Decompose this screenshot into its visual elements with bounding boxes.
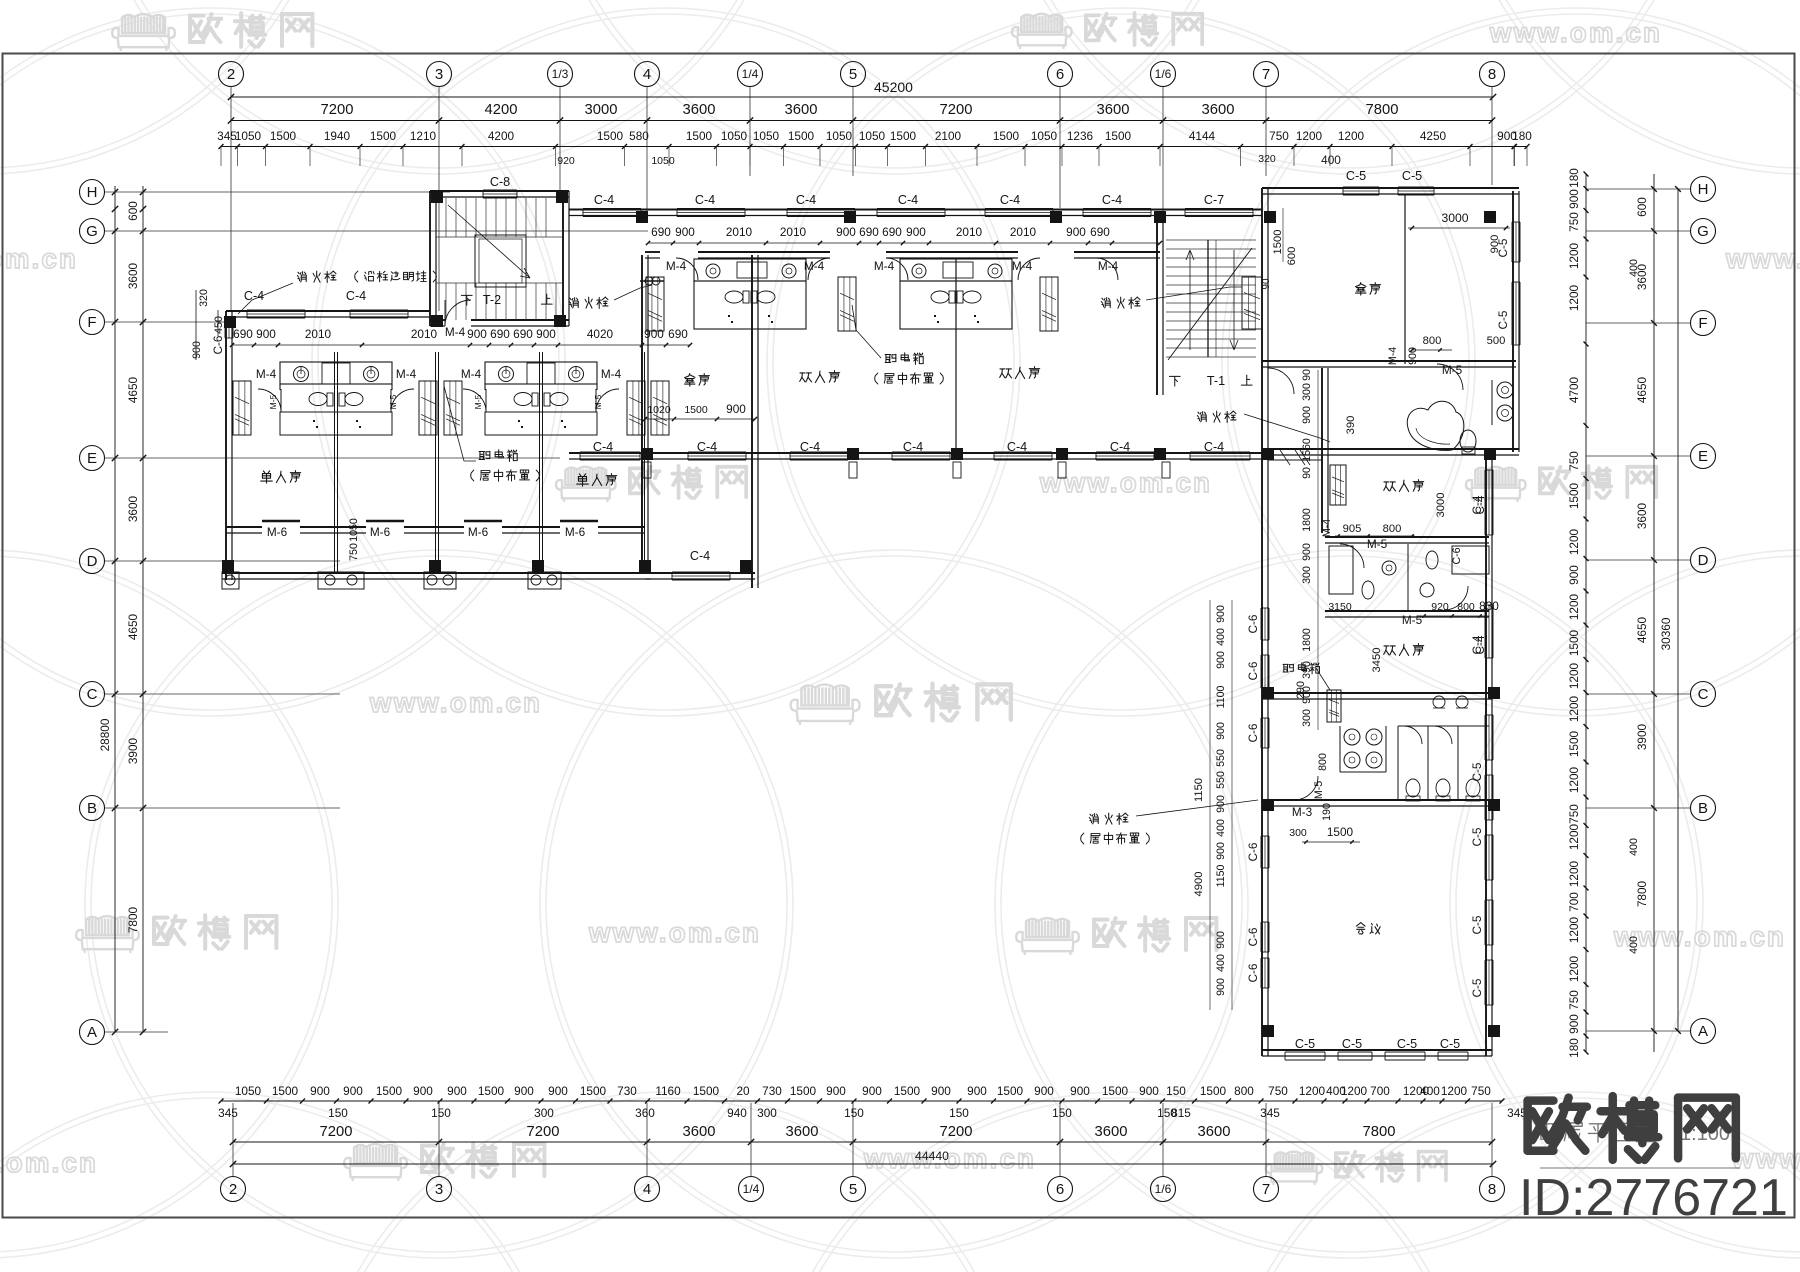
svg-text:C-4: C-4 — [1470, 495, 1484, 514]
svg-text:4200: 4200 — [485, 102, 518, 118]
svg-text:M-4: M-4 — [445, 325, 466, 339]
svg-text:1940: 1940 — [324, 129, 351, 143]
svg-text:390: 390 — [1345, 416, 1357, 435]
svg-text:1500: 1500 — [370, 129, 397, 143]
svg-text:900: 900 — [836, 225, 856, 239]
corridor top wall with windows — [569, 209, 1262, 211]
svg-text:1500: 1500 — [597, 129, 624, 143]
top block interior divider — [1404, 194, 1406, 364]
svg-text:1500: 1500 — [684, 404, 708, 416]
top block top windows C-5 — [1343, 186, 1379, 188]
svg-text:900: 900 — [514, 1084, 534, 1098]
3000 dim in right room — [1408, 227, 1510, 229]
svg-text:C-4: C-4 — [1102, 193, 1122, 207]
svg-text:M-5: M-5 — [473, 394, 483, 409]
bottom fine dims — [221, 1100, 1502, 1102]
column Z29 — [1488, 1025, 1500, 1037]
T-2 labels — [461, 295, 472, 305]
svg-text:7800: 7800 — [1363, 1124, 1396, 1140]
svg-text:900: 900 — [1407, 347, 1419, 365]
svg-text:900: 900 — [1567, 565, 1581, 585]
svg-text:M-4: M-4 — [874, 259, 895, 273]
svg-text:3600: 3600 — [1635, 502, 1649, 529]
svg-text:7: 7 — [1262, 66, 1270, 83]
svg-text:690: 690 — [882, 225, 902, 239]
svg-text:4200: 4200 — [488, 129, 515, 143]
svg-text:C-4: C-4 — [1110, 440, 1130, 454]
svg-text:400: 400 — [1420, 1084, 1440, 1098]
svg-text:3000: 3000 — [1435, 493, 1447, 518]
svg-text:C-4: C-4 — [594, 193, 614, 207]
svg-text:815: 815 — [1171, 1106, 1191, 1120]
svg-text:900: 900 — [1215, 651, 1227, 669]
column Z21 — [532, 560, 544, 572]
svg-text:www.om.cn: www.om.cn — [369, 687, 542, 718]
svg-text:1050: 1050 — [235, 129, 262, 143]
svg-text:1500: 1500 — [1272, 230, 1284, 255]
svg-text:900: 900 — [536, 327, 556, 341]
svg-text:500: 500 — [1487, 335, 1506, 347]
svg-text:3600: 3600 — [683, 102, 716, 118]
svg-text:C-5: C-5 — [1470, 762, 1484, 781]
svg-text:4144: 4144 — [1189, 129, 1216, 143]
svg-text:1200: 1200 — [1341, 1084, 1368, 1098]
bottom total dim 44440 — [233, 1163, 1493, 1165]
svg-text:360: 360 — [635, 1106, 655, 1120]
dims 3150 920 800 830 — [1325, 617, 1489, 619]
double room 1 right wing — [1384, 480, 1424, 492]
svg-text:4650: 4650 — [126, 376, 140, 403]
svg-text:1200: 1200 — [1567, 860, 1581, 887]
svg-text:900: 900 — [1567, 189, 1581, 209]
porch boxes — [222, 572, 239, 589]
svg-text:400: 400 — [1215, 628, 1227, 646]
svg-text:750: 750 — [1567, 804, 1581, 824]
svg-text:M-6: M-6 — [565, 525, 586, 539]
column Z27 — [1488, 799, 1500, 811]
svg-text:4: 4 — [643, 66, 651, 83]
svg-text:1500: 1500 — [890, 129, 917, 143]
svg-text:1500: 1500 — [997, 1084, 1024, 1098]
M-3 door — [1262, 799, 1492, 801]
svg-text:C-8: C-8 — [490, 175, 510, 189]
svg-text:1050: 1050 — [235, 1084, 262, 1098]
svg-text:1200: 1200 — [1567, 528, 1581, 555]
svg-text:3600: 3600 — [126, 262, 140, 289]
watermark row1 — [112, 14, 175, 50]
top mid dims — [231, 120, 1493, 122]
svg-text:1160: 1160 — [655, 1084, 681, 1098]
grid bubble H left — [80, 180, 105, 205]
grid bubble 7 top — [1254, 62, 1279, 87]
distribution box right wing — [1283, 663, 1319, 674]
bottom mid dims — [233, 1141, 1493, 1143]
svg-text:ID:2776721: ID:2776721 — [1519, 1169, 1788, 1227]
svg-text:3: 3 — [435, 1181, 443, 1198]
svg-text:4650: 4650 — [1635, 616, 1649, 643]
svg-text:4250: 4250 — [1420, 129, 1447, 143]
svg-text:750: 750 — [1471, 1084, 1491, 1098]
svg-text:900: 900 — [1301, 406, 1313, 424]
column Z15 — [1056, 448, 1068, 460]
svg-text:M-4: M-4 — [1321, 519, 1333, 537]
svg-text:750: 750 — [1567, 990, 1581, 1010]
svg-text:M-5: M-5 — [1367, 537, 1388, 551]
svg-text:3000: 3000 — [1441, 211, 1468, 225]
svg-text:3600: 3600 — [1198, 1124, 1231, 1140]
svg-text:1500: 1500 — [993, 129, 1020, 143]
svg-text:750: 750 — [1567, 212, 1581, 232]
middle door arcs — [676, 258, 698, 280]
svg-text:940: 940 — [727, 1106, 747, 1120]
svg-text:1500: 1500 — [788, 129, 815, 143]
svg-text:2010: 2010 — [411, 327, 438, 341]
svg-text:1050: 1050 — [651, 155, 675, 167]
svg-text:7200: 7200 — [320, 1124, 353, 1140]
svg-text:900: 900 — [1034, 1084, 1054, 1098]
svg-text:4020: 4020 — [587, 327, 614, 341]
svg-text:1020: 1020 — [647, 404, 671, 416]
top block M-4 door left — [1268, 368, 1294, 394]
grid bubble C right — [1691, 682, 1716, 707]
svg-text:H: H — [87, 184, 98, 201]
column Z1 — [431, 191, 443, 203]
svg-text:B: B — [1698, 800, 1708, 817]
svg-text:90: 90 — [1301, 369, 1313, 381]
svg-text:1500: 1500 — [1327, 825, 1354, 839]
svg-text:6: 6 — [1056, 66, 1064, 83]
column Z8 — [1484, 211, 1496, 223]
svg-text:1500: 1500 — [894, 1084, 921, 1098]
svg-text:C-5: C-5 — [1470, 978, 1484, 997]
svg-text:320: 320 — [198, 289, 210, 307]
svg-text:3600: 3600 — [1202, 102, 1235, 118]
svg-text:C-6: C-6 — [1246, 661, 1260, 680]
svg-text:www.om.cn: www.om.cn — [0, 243, 78, 274]
svg-text:7200: 7200 — [527, 1124, 560, 1140]
hydrant label mid-left — [569, 297, 608, 308]
svg-text:M-5: M-5 — [593, 394, 603, 409]
svg-text:4650: 4650 — [1635, 376, 1649, 403]
svg-text:C-5: C-5 — [1346, 169, 1366, 183]
column Z18 — [1484, 448, 1496, 460]
suite room label left — [685, 374, 710, 386]
grid bubble C left — [80, 682, 105, 707]
svg-text:1236: 1236 — [1067, 129, 1094, 143]
top block right wall windows C-5 — [1511, 222, 1513, 262]
svg-text:3600: 3600 — [785, 102, 818, 118]
grid bubble B left — [80, 796, 105, 821]
svg-text:1500: 1500 — [1567, 730, 1581, 757]
svg-text:A: A — [87, 1024, 97, 1041]
svg-text:600: 600 — [1635, 197, 1649, 217]
svg-text:1/6: 1/6 — [1155, 67, 1172, 81]
svg-text:M-5: M-5 — [1402, 613, 1423, 627]
grid bubble 4 bottom — [635, 1177, 660, 1202]
svg-text:900: 900 — [548, 1084, 568, 1098]
svg-text:690: 690 — [1090, 225, 1110, 239]
svg-text:www.om.cn: www.om.cn — [1725, 243, 1800, 274]
svg-text:1500: 1500 — [686, 129, 713, 143]
top grid verticals — [230, 87, 232, 311]
svg-text:690: 690 — [490, 327, 510, 341]
svg-text:1200: 1200 — [1567, 955, 1581, 982]
svg-text:C-6: C-6 — [211, 335, 225, 354]
column Z2 — [556, 191, 568, 203]
column Z26 — [1262, 799, 1274, 811]
column Z4 — [844, 211, 856, 223]
svg-text:690: 690 — [668, 327, 688, 341]
column Z14 — [951, 448, 963, 460]
grid bubble 1/6 top — [1151, 62, 1176, 87]
svg-text:1150: 1150 — [1193, 778, 1205, 802]
svg-text:900: 900 — [1489, 235, 1501, 254]
svg-text:3150: 3150 — [1328, 601, 1352, 613]
hydrant label right wing — [1197, 411, 1236, 422]
svg-text:1/6: 1/6 — [1155, 1182, 1172, 1196]
svg-text:600: 600 — [1286, 247, 1298, 266]
right wall windows lower — [1484, 470, 1486, 535]
svg-text:700: 700 — [1567, 892, 1581, 912]
svg-text:900: 900 — [1567, 1014, 1581, 1034]
wall stubs below row E — [643, 462, 651, 478]
grid bubble A right — [1691, 1019, 1716, 1044]
grid bubble A left — [80, 1020, 105, 1045]
svg-text:B: B — [87, 800, 97, 817]
svg-text:2010: 2010 — [305, 327, 332, 341]
svg-text:M-6: M-6 — [468, 525, 489, 539]
svg-text:3450: 3450 — [1371, 648, 1383, 673]
svg-text:2010: 2010 — [726, 225, 753, 239]
column Z25 — [1488, 687, 1500, 699]
T-2 door at bottom — [445, 300, 471, 326]
svg-text:900: 900 — [1301, 543, 1313, 561]
svg-text:900: 900 — [447, 1084, 467, 1098]
T-2 treads — [445, 198, 447, 237]
svg-text:F: F — [87, 314, 96, 331]
svg-text:300: 300 — [757, 1106, 777, 1120]
svg-text:M-4: M-4 — [804, 259, 825, 273]
svg-text:900: 900 — [1215, 842, 1227, 860]
middle wardrobes — [646, 277, 664, 331]
svg-text:C-4: C-4 — [800, 440, 820, 454]
big logo OMW — [1528, 1096, 1736, 1160]
svg-text:900: 900 — [343, 1084, 363, 1098]
left wing walkway outer wall — [222, 572, 651, 574]
svg-text:1500: 1500 — [580, 1084, 607, 1098]
bathroom row room1 — [1325, 536, 1489, 538]
T-2 elevator — [475, 235, 526, 287]
svg-text:2100: 2100 — [935, 129, 962, 143]
svg-text:150: 150 — [1052, 1106, 1072, 1120]
svg-text:C-4: C-4 — [697, 440, 717, 454]
svg-text:1200: 1200 — [1441, 1084, 1468, 1098]
svg-text:1050: 1050 — [826, 129, 853, 143]
svg-text:1/4: 1/4 — [742, 67, 759, 81]
svg-text:4900: 4900 — [1193, 872, 1205, 897]
toilets block — [1344, 729, 1360, 745]
svg-text:180: 180 — [1512, 129, 1532, 143]
svg-text:C-5: C-5 — [1470, 827, 1484, 846]
svg-text:300: 300 — [1301, 383, 1313, 401]
left wing interior dim row — [232, 344, 690, 346]
svg-text:900: 900 — [256, 327, 276, 341]
svg-text:1200: 1200 — [1567, 766, 1581, 793]
svg-text:600: 600 — [126, 201, 140, 221]
meeting room — [1356, 923, 1380, 934]
svg-text:1200: 1200 — [1299, 1084, 1326, 1098]
grid bubble 6 top — [1048, 62, 1073, 87]
svg-text:H: H — [1698, 181, 1709, 198]
svg-text:905: 905 — [1343, 523, 1362, 535]
suite bottom wall + window C-4 — [645, 572, 755, 574]
svg-text:C-5: C-5 — [1470, 915, 1484, 934]
svg-text:1/4: 1/4 — [743, 1182, 760, 1196]
svg-text:750: 750 — [1567, 451, 1581, 471]
svg-text:400: 400 — [1321, 153, 1341, 167]
column Z6 — [1154, 211, 1166, 223]
grid bubble E left — [80, 446, 105, 471]
left wing bathroom pair A — [280, 362, 392, 384]
svg-text:C-4: C-4 — [796, 193, 816, 207]
svg-text:20: 20 — [736, 1084, 750, 1098]
hydrant cabinet right of corridor — [1242, 277, 1262, 329]
svg-text:750: 750 — [348, 543, 360, 561]
svg-text:3900: 3900 — [126, 737, 140, 764]
svg-text:M-5: M-5 — [1313, 781, 1325, 799]
svg-text:7200: 7200 — [940, 1124, 973, 1140]
grid bubble 7 bottom — [1254, 1177, 1279, 1202]
top block door M-5 and dims — [1437, 364, 1463, 390]
svg-text:C-6: C-6 — [1246, 842, 1260, 861]
svg-text:7: 7 — [1262, 1181, 1270, 1198]
top total dim 45200 — [231, 96, 1493, 98]
svg-text:C-4: C-4 — [346, 289, 366, 303]
svg-text:M-5: M-5 — [1442, 363, 1463, 377]
svg-text:www.om.cn: www.om.cn — [1039, 467, 1212, 498]
middle room labels — [800, 371, 840, 383]
svg-text:900: 900 — [310, 1084, 330, 1098]
svg-text:7800: 7800 — [126, 906, 140, 933]
column Z7 — [1264, 211, 1276, 223]
middle rooms dividers — [751, 259, 753, 450]
toilet stalls — [1398, 725, 1489, 727]
grid bubble 2 bottom — [221, 1177, 246, 1202]
svg-text:T-1: T-1 — [1207, 374, 1225, 388]
svg-text:730: 730 — [762, 1084, 782, 1098]
svg-text:M-4: M-4 — [1098, 259, 1119, 273]
svg-text:1500: 1500 — [376, 1084, 403, 1098]
svg-text:690: 690 — [651, 225, 671, 239]
grid bubble 3 top — [427, 62, 452, 87]
svg-text:320: 320 — [1258, 153, 1276, 165]
svg-text:1200: 1200 — [1296, 129, 1323, 143]
svg-text:C-5: C-5 — [1295, 1037, 1315, 1051]
svg-text:1050: 1050 — [1031, 129, 1058, 143]
svg-text:400: 400 — [1215, 954, 1227, 972]
svg-text:550: 550 — [1215, 771, 1227, 789]
svg-text:M-6: M-6 — [370, 525, 391, 539]
svg-text:8: 8 — [1488, 1181, 1496, 1198]
svg-text:900: 900 — [675, 225, 695, 239]
corridor closet — [1330, 465, 1346, 505]
column Z17 — [1262, 448, 1274, 460]
stair T-2 block — [429, 191, 431, 326]
svg-text:1500: 1500 — [272, 1084, 299, 1098]
bottom grid verticals — [232, 1103, 234, 1176]
svg-text:8: 8 — [1488, 66, 1496, 83]
left wing top windows C-4 — [247, 309, 305, 311]
svg-text:C-4: C-4 — [1204, 440, 1224, 454]
svg-text:800: 800 — [1317, 753, 1329, 771]
room labels single rooms — [261, 471, 301, 483]
svg-text:900: 900 — [931, 1084, 951, 1098]
grid bubble 1/4 top — [738, 62, 763, 87]
svg-text:C-4: C-4 — [1007, 440, 1027, 454]
svg-text:700: 700 — [1370, 1084, 1390, 1098]
svg-text:900: 900 — [862, 1084, 882, 1098]
svg-text:C-4: C-4 — [898, 193, 918, 207]
svg-text:900: 900 — [826, 1084, 846, 1098]
svg-text:C-6: C-6 — [1246, 614, 1260, 633]
right dim lines — [1585, 174, 1587, 1052]
hydrant label left — [297, 271, 336, 282]
svg-text:C: C — [87, 686, 98, 703]
svg-text:4: 4 — [643, 1181, 651, 1198]
svg-text:4650: 4650 — [126, 613, 140, 640]
svg-text:450: 450 — [213, 316, 225, 334]
svg-text:M-4: M-4 — [601, 367, 622, 381]
svg-text:C-7: C-7 — [1204, 193, 1224, 207]
svg-text:1210: 1210 — [410, 129, 437, 143]
svg-text:900: 900 — [644, 327, 664, 341]
svg-text:1100: 1100 — [1215, 686, 1227, 709]
svg-text:2010: 2010 — [1010, 225, 1037, 239]
svg-text:150: 150 — [431, 1106, 451, 1120]
svg-text:F: F — [1698, 315, 1707, 332]
svg-text:3600: 3600 — [683, 1124, 716, 1140]
svg-text:C-5: C-5 — [1342, 1037, 1362, 1051]
svg-text:C-5: C-5 — [1397, 1037, 1417, 1051]
svg-text:750: 750 — [1268, 1084, 1288, 1098]
grid bubble 1/3 top — [548, 62, 573, 87]
svg-text:920: 920 — [1431, 601, 1449, 613]
grid bubble B right — [1691, 796, 1716, 821]
svg-text:900: 900 — [1215, 605, 1227, 623]
right grid connector lines — [1586, 188, 1690, 190]
left wall window C-6 — [224, 320, 226, 338]
svg-text:1200: 1200 — [1567, 662, 1581, 689]
svg-text:C-4: C-4 — [1470, 635, 1484, 654]
hydrant label bottom — [1089, 813, 1128, 824]
svg-text:M-4: M-4 — [666, 259, 687, 273]
svg-text:550: 550 — [1215, 749, 1227, 767]
svg-text:1560: 1560 — [1301, 438, 1313, 462]
svg-text:800: 800 — [1423, 335, 1442, 347]
svg-text:1500: 1500 — [1105, 129, 1132, 143]
svg-text:C-5: C-5 — [1496, 310, 1510, 329]
svg-text:400: 400 — [1628, 838, 1640, 856]
svg-text:800: 800 — [1457, 601, 1475, 613]
svg-text:7200: 7200 — [940, 102, 973, 118]
svg-text:E: E — [1698, 448, 1708, 465]
drawing title (behind logo) — [1541, 1122, 1656, 1142]
svg-text:900: 900 — [967, 1084, 987, 1098]
svg-text:www.om.cn: www.om.cn — [0, 1147, 98, 1178]
rooms bottom wall row E with windows — [569, 452, 1262, 454]
top block bathroom fixtures — [1407, 401, 1464, 450]
svg-text:750: 750 — [1269, 129, 1289, 143]
